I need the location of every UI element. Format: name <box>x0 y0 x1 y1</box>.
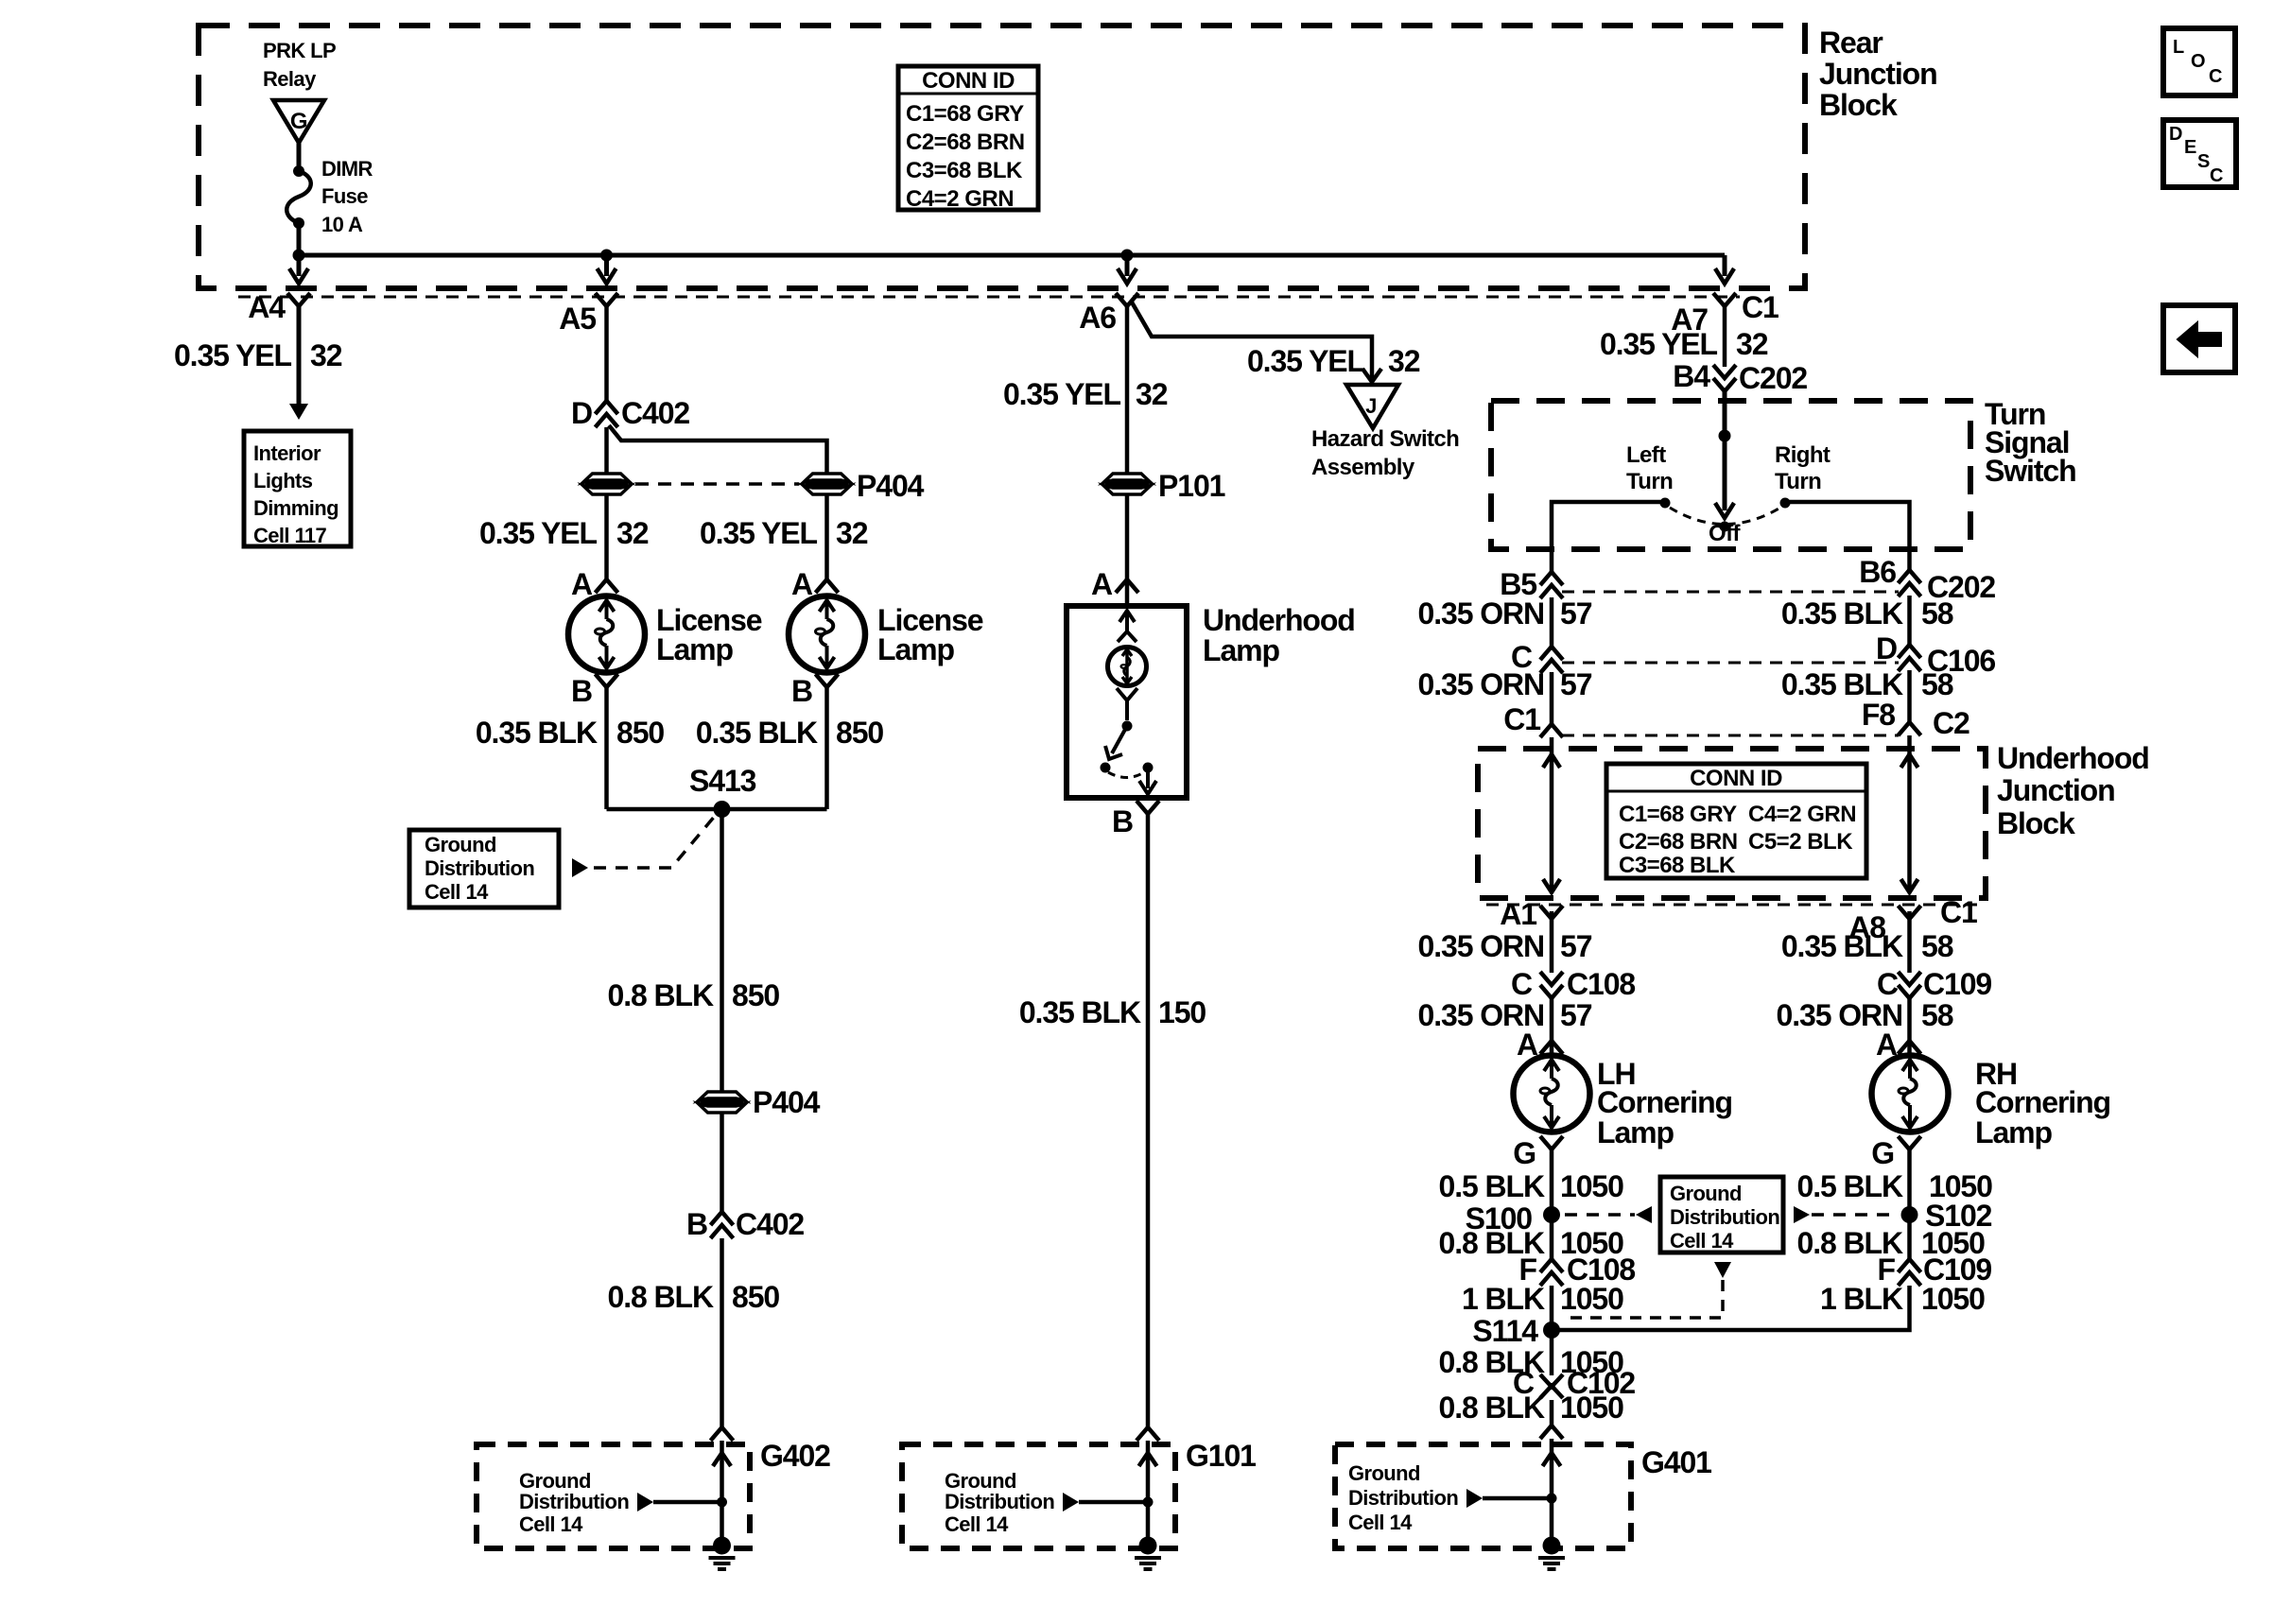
svg-text:E: E <box>2184 137 2196 158</box>
pin A chevron (right license) <box>816 579 839 593</box>
dashed tie between P404 grommets <box>635 482 799 486</box>
label 0.35 BLK 150 <box>1019 995 1206 1029</box>
pin G fork (LH cornering) <box>1540 1136 1563 1149</box>
svg-text:Lamp: Lamp <box>1597 1115 1674 1149</box>
Left Turn contact dot <box>1660 498 1671 509</box>
Turn Signal Switch label <box>1985 397 2076 488</box>
underhood output arrow to box edge <box>1139 768 1156 794</box>
svg-text:C202: C202 <box>1739 361 1807 395</box>
label 1 BLK 1050 (left) <box>1462 1282 1623 1316</box>
underhood switch pivot dot <box>1122 721 1133 732</box>
svg-text:C3=68 BLK: C3=68 BLK <box>1619 853 1736 878</box>
G402 junction dot <box>717 1497 727 1508</box>
wire into G401 with up arrow <box>1543 1439 1561 1546</box>
wire F C109 down and across to S114 <box>1552 1286 1910 1330</box>
svg-text:PRK LP: PRK LP <box>263 39 336 62</box>
svg-text:B: B <box>791 674 812 708</box>
svg-text:850: 850 <box>732 978 779 1012</box>
label 0.35 YEL 32 (left license) <box>479 516 649 550</box>
svg-text:B: B <box>1112 804 1133 838</box>
svg-text:1050: 1050 <box>1560 1169 1623 1203</box>
svg-text:58: 58 <box>1921 929 1953 963</box>
pin A chevron (LH cornering) <box>1540 1041 1563 1054</box>
connector C1 chevron <box>1540 724 1563 737</box>
wire A7 down to C202 <box>1723 303 1727 367</box>
connector D/C402 double chevron <box>596 401 618 427</box>
wire A4 down to interior lights box <box>297 303 302 406</box>
svg-text:G: G <box>1871 1136 1894 1170</box>
svg-text:1 BLK: 1 BLK <box>1820 1282 1903 1316</box>
svg-text:Lamp: Lamp <box>1975 1115 2052 1149</box>
arrowhead into hazard J <box>1362 369 1381 382</box>
arrowhead into interior lights box <box>289 404 308 420</box>
svg-text:0.35 BLK: 0.35 BLK <box>696 716 818 750</box>
Rear Junction Block dashed box <box>199 26 1805 288</box>
Underhood Lamp label <box>1203 603 1355 667</box>
wire A5 down to C402 connector <box>604 303 609 401</box>
svg-text:0.35 BLK: 0.35 BLK <box>1781 929 1903 963</box>
label Right Turn <box>1775 442 1831 494</box>
wire B5 to C <box>1550 597 1554 648</box>
svg-text:C4=2 GRN: C4=2 GRN <box>1748 802 1856 827</box>
svg-text:S114: S114 <box>1472 1314 1538 1348</box>
wire F C108 to S114 <box>1550 1286 1554 1330</box>
right License Lamp <box>789 596 865 673</box>
wire A6 down to P101 <box>1125 303 1130 474</box>
svg-text:Block: Block <box>1997 806 2075 840</box>
wire C102 to G401 <box>1550 1400 1554 1425</box>
connector B5 double chevron <box>1540 572 1563 598</box>
underhood switch arm <box>1105 726 1127 759</box>
CONN ID table (rear junction block) <box>898 66 1038 212</box>
svg-text:Lamp: Lamp <box>877 632 954 666</box>
svg-text:C3=68 BLK: C3=68 BLK <box>906 158 1023 183</box>
grommet P404 (left license) <box>583 474 631 494</box>
svg-text:A1: A1 <box>1500 897 1536 931</box>
Off contact dot <box>1720 522 1730 532</box>
wire S413 down to P404 <box>720 809 724 1092</box>
label 0.35 ORN 57 (row1) <box>1418 596 1592 631</box>
relay output triangle G <box>273 100 324 143</box>
pin B fork (left license) <box>596 674 618 687</box>
svg-text:C402: C402 <box>736 1207 804 1241</box>
svg-text:C1=68 GRY: C1=68 GRY <box>1619 802 1737 827</box>
splice S100 <box>1543 1206 1560 1223</box>
label 0.5 BLK 1050 (RH) <box>1797 1169 1993 1203</box>
svg-text:Cell 14: Cell 14 <box>1348 1511 1413 1534</box>
svg-text:32: 32 <box>1388 344 1420 378</box>
Turn Signal Switch dashed box <box>1491 401 1970 549</box>
pin A chevron (left license) <box>596 579 618 593</box>
drop wire to A7 with arrow <box>1715 255 1734 284</box>
label 0.8 BLK 1050 (below S100) <box>1439 1226 1624 1260</box>
label 0.8 BLK 850 (lower) <box>608 1280 780 1314</box>
svg-text:150: 150 <box>1158 995 1206 1029</box>
svg-text:Cell 14: Cell 14 <box>945 1512 1009 1536</box>
callout arrow (S413) <box>572 858 588 877</box>
svg-text:0.8 BLK: 0.8 BLK <box>1439 1391 1545 1425</box>
svg-text:Cell 14: Cell 14 <box>425 880 489 904</box>
connector fork A7/C1 <box>1713 293 1736 306</box>
connector fork A5 <box>596 293 618 306</box>
wire underhood B down to G101 <box>1146 814 1151 1427</box>
label 0.35 BLK 58 (row2) <box>1781 667 1953 701</box>
svg-text:B: B <box>686 1207 707 1241</box>
G402 internal tie wire <box>653 1500 722 1505</box>
PRK LP Relay label <box>263 39 336 91</box>
label 0.35 BLK 850 (left license) <box>476 716 665 750</box>
svg-text:C1: C1 <box>1742 290 1778 324</box>
right turn output wire <box>1785 502 1910 572</box>
svg-text:G: G <box>290 109 307 134</box>
svg-text:1 BLK: 1 BLK <box>1462 1282 1545 1316</box>
G402 ground distribution dashed box <box>477 1444 750 1548</box>
connector B/C402 double chevron (lower) <box>711 1212 734 1238</box>
svg-text:Turn: Turn <box>1626 469 1673 494</box>
label 0.8 BLK 850 (upper) <box>608 978 780 1012</box>
underhood bulb <box>1108 648 1147 686</box>
underhood internal feed arrow <box>1118 611 1136 642</box>
connector C/C109 double chevron down <box>1899 972 1921 998</box>
dashed throw arc (turn switch) <box>1670 508 1780 525</box>
svg-text:1050: 1050 <box>1921 1282 1985 1316</box>
svg-text:O: O <box>2191 51 2206 72</box>
svg-text:C4=2 GRN: C4=2 GRN <box>906 186 1014 212</box>
svg-text:B4: B4 <box>1673 359 1710 393</box>
svg-text:Ground: Ground <box>425 833 496 856</box>
svg-text:C1=68 GRY: C1=68 GRY <box>906 101 1024 127</box>
svg-text:C109: C109 <box>1923 967 1991 1001</box>
svg-text:32: 32 <box>1736 327 1768 361</box>
wire RH G to S102 <box>1907 1149 1912 1259</box>
svg-text:Cell 14: Cell 14 <box>1670 1229 1734 1253</box>
svg-text:0.35 ORN: 0.35 ORN <box>1418 596 1544 631</box>
svg-text:C: C <box>2210 165 2223 186</box>
wire C108 to lamp A <box>1550 998 1554 1056</box>
svg-text:C5=2 BLK: C5=2 BLK <box>1748 829 1853 855</box>
drop wire to A6 with arrow <box>1118 255 1136 284</box>
pin A chevron (underhood) <box>1116 579 1138 593</box>
svg-text:57: 57 <box>1560 929 1592 963</box>
svg-text:S413: S413 <box>689 764 756 798</box>
pin A chevron (RH cornering) <box>1899 1041 1921 1054</box>
svg-text:Cell 117: Cell 117 <box>253 524 327 547</box>
turn switch pivot dot <box>1719 430 1731 442</box>
branch wire A6 to hazard switch <box>1131 301 1372 378</box>
connector F/C109 double chevron <box>1899 1259 1921 1286</box>
svg-text:Ground: Ground <box>1670 1182 1742 1205</box>
thin dashed interface line (C2) <box>1562 734 1899 737</box>
svg-text:0.8 BLK: 0.8 BLK <box>608 1280 714 1314</box>
label 0.35 ORN 57 (A1) <box>1418 929 1592 963</box>
svg-text:Left: Left <box>1626 442 1666 468</box>
label 0.35 BLK 850 (right license) <box>696 716 884 750</box>
svg-text:G101: G101 <box>1186 1439 1256 1473</box>
DIMR fuse 10A <box>286 157 373 236</box>
wire relay to fuse <box>297 143 302 171</box>
underhood switch left contact <box>1101 763 1111 773</box>
svg-text:Distribution: Distribution <box>519 1490 629 1513</box>
hazard J triangle <box>1346 385 1398 428</box>
svg-text:DIMR: DIMR <box>321 157 373 181</box>
left License Lamp label <box>656 603 762 666</box>
wire B6 to D <box>1907 596 1912 647</box>
label 0.35 BLK 58 (A8) <box>1781 929 1953 963</box>
grommet P404 (right license) <box>804 474 851 494</box>
svg-text:Dimming: Dimming <box>253 496 338 520</box>
svg-text:32: 32 <box>1136 377 1168 411</box>
wire C402 down to G402 <box>720 1238 724 1427</box>
bus junction dot A4 <box>293 250 305 262</box>
svg-text:CONN ID: CONN ID <box>922 68 1015 94</box>
svg-text:Distribution: Distribution <box>1348 1486 1458 1510</box>
G401 internal tie wire <box>1483 1496 1552 1501</box>
junction block pass-through wire (left) <box>1543 737 1560 892</box>
svg-text:1050: 1050 <box>1560 1391 1623 1425</box>
connector interface thin dashed line below junction block <box>238 296 1740 299</box>
svg-text:Junction: Junction <box>1819 57 1937 91</box>
svg-text:850: 850 <box>732 1280 779 1314</box>
svg-text:Cell 14: Cell 14 <box>519 1512 583 1536</box>
underhood bulb-to-switch fork <box>1117 688 1137 720</box>
svg-text:32: 32 <box>616 516 649 550</box>
wire P404 to lamp A (right) <box>824 494 829 580</box>
svg-text:0.35 ORN: 0.35 ORN <box>1418 929 1544 963</box>
drop wire to A5 with arrow <box>598 255 616 284</box>
dashed leader with arrow (S102) <box>1794 1206 1897 1223</box>
wire D to F8 <box>1907 670 1912 722</box>
junction block pass-through wire (right) <box>1901 735 1918 892</box>
svg-text:P404: P404 <box>753 1085 821 1119</box>
turn switch wiper arrow <box>1715 503 1734 518</box>
splice S102 <box>1901 1206 1918 1223</box>
dashed leader with arrow (S100) <box>1565 1206 1652 1223</box>
callout arrow down to S114 <box>1567 1262 1731 1318</box>
pin B fork (underhood) <box>1136 801 1159 814</box>
svg-text:32: 32 <box>310 338 342 372</box>
G401 ground distribution dashed box <box>1335 1444 1631 1548</box>
wire C109 to lamp A <box>1907 998 1912 1056</box>
wire P404 to C402 B <box>720 1113 724 1212</box>
svg-text:32: 32 <box>836 516 868 550</box>
svg-text:Distribution: Distribution <box>1670 1205 1779 1229</box>
svg-text:Lamp: Lamp <box>1203 633 1279 667</box>
G401 junction dot <box>1547 1494 1557 1504</box>
LH Cornering Lamp <box>1514 1056 1590 1132</box>
svg-text:0.35 BLK: 0.35 BLK <box>1781 667 1903 701</box>
CONN ID table (underhood junction block) <box>1606 764 1866 878</box>
ground symbol G101 <box>1135 1537 1161 1570</box>
svg-text:L: L <box>2173 37 2184 58</box>
connector fork A8/C1 <box>1899 906 1921 919</box>
chevron above G402 <box>711 1427 734 1441</box>
Underhood Junction Block dashed box <box>1478 749 1986 898</box>
G401 internal arrow <box>1466 1489 1483 1508</box>
splice S413 <box>714 801 731 818</box>
svg-text:G: G <box>1513 1136 1536 1170</box>
svg-text:C1: C1 <box>1940 895 1977 929</box>
drop wire to A4 with arrow <box>289 255 308 284</box>
LOC box <box>2163 28 2235 95</box>
chevron above G101 <box>1136 1427 1159 1441</box>
label 0.35 ORN 57 (lamp feed left) <box>1418 998 1592 1032</box>
Interior Lights Dimming Cell 117 box <box>244 431 351 547</box>
svg-text:0.35 YEL: 0.35 YEL <box>1003 377 1121 411</box>
pin G fork (RH cornering) <box>1899 1136 1921 1149</box>
svg-text:C108: C108 <box>1567 967 1635 1001</box>
svg-text:850: 850 <box>836 716 883 750</box>
svg-text:Block: Block <box>1819 88 1898 122</box>
label 0.35 YEL 32 (A4 wire) <box>174 338 342 372</box>
svg-text:D: D <box>2169 124 2182 145</box>
RH Cornering Lamp label <box>1975 1057 2110 1149</box>
svg-text:A4: A4 <box>248 290 286 324</box>
G402 internal arrow <box>637 1493 653 1512</box>
wire LH G to S100 <box>1550 1149 1554 1259</box>
svg-text:D: D <box>1876 631 1897 665</box>
splice S114 <box>1543 1322 1560 1339</box>
grommet P404 (lower) <box>699 1092 746 1113</box>
svg-text:G401: G401 <box>1641 1445 1711 1479</box>
svg-text:C2=68 BRN: C2=68 BRN <box>906 130 1025 155</box>
svg-text:A: A <box>571 567 593 601</box>
label 0.35 ORN 57 (row2) <box>1418 667 1592 701</box>
svg-text:B: B <box>571 674 592 708</box>
svg-text:0.5 BLK: 0.5 BLK <box>1439 1169 1545 1203</box>
svg-text:A: A <box>1091 567 1113 601</box>
wire C402 to P404 grommet (left) <box>604 427 609 474</box>
svg-text:C1: C1 <box>1503 702 1540 736</box>
label 0.35 YEL 32 (right license) <box>700 516 868 550</box>
G101 internal arrow <box>1063 1493 1079 1512</box>
wire left license B down to S413 <box>604 687 609 809</box>
svg-text:Distribution: Distribution <box>425 856 534 880</box>
ground distribution callout box (cornering) <box>1660 1177 1783 1253</box>
svg-text:0.8 BLK: 0.8 BLK <box>608 978 714 1012</box>
svg-text:Hazard Switch: Hazard Switch <box>1311 426 1459 452</box>
svg-text:J: J <box>1365 394 1377 418</box>
left turn output wire <box>1552 502 1665 574</box>
LH Cornering Lamp label <box>1597 1057 1732 1149</box>
svg-text:A5: A5 <box>559 302 596 336</box>
svg-text:57: 57 <box>1560 998 1592 1032</box>
svg-text:Relay: Relay <box>263 67 317 91</box>
label 0.8 BLK 1050 (below S114) <box>1439 1345 1624 1379</box>
svg-text:Assembly: Assembly <box>1311 455 1415 480</box>
svg-text:0.5 BLK: 0.5 BLK <box>1797 1169 1903 1203</box>
S413 tie wire <box>607 807 827 812</box>
svg-text:1050: 1050 <box>1560 1282 1623 1316</box>
svg-text:0.35 ORN: 0.35 ORN <box>1418 667 1544 701</box>
svg-text:S: S <box>2197 151 2210 172</box>
thin dashed interface line (C202) <box>1562 591 1899 594</box>
label 0.35 YEL 32 (A7 wire) <box>1600 327 1768 361</box>
svg-text:C402: C402 <box>621 396 689 430</box>
label 0.8 BLK 1050 (above G401) <box>1439 1391 1624 1425</box>
connector F/C108 double chevron <box>1540 1259 1563 1286</box>
ground distribution callout box (S413) <box>409 830 559 907</box>
branch wire from C402 to right license lamp drop <box>609 425 827 474</box>
Underhood Lamp box <box>1067 606 1187 798</box>
svg-text:C: C <box>1511 967 1533 1001</box>
label 0.35 ORN 58 (lamp feed right) <box>1777 998 1953 1032</box>
svg-text:Underhood: Underhood <box>1997 741 2149 775</box>
svg-text:Rear: Rear <box>1819 26 1883 60</box>
svg-text:Switch: Switch <box>1985 454 2076 488</box>
svg-text:Right: Right <box>1775 442 1831 468</box>
svg-text:58: 58 <box>1921 596 1953 631</box>
connector C double chevron (C106 left) <box>1540 647 1563 673</box>
label 0.35 YEL 32 (hazard branch) <box>1247 344 1420 378</box>
svg-text:D: D <box>571 396 592 430</box>
ground symbol G401 <box>1538 1537 1565 1570</box>
svg-text:A6: A6 <box>1079 301 1116 335</box>
bus junction dot A5 <box>600 250 613 262</box>
svg-text:0.35 YEL: 0.35 YEL <box>1247 344 1365 378</box>
wire C to C1 <box>1550 672 1554 724</box>
turn switch feed wire <box>1723 391 1727 510</box>
label 0.5 BLK 1050 (LH) <box>1439 1169 1624 1203</box>
svg-text:Cornering: Cornering <box>1975 1085 2110 1119</box>
G101 junction dot <box>1143 1497 1154 1508</box>
wire into G101 with up arrow <box>1139 1441 1157 1546</box>
svg-text:0.35 BLK: 0.35 BLK <box>1781 596 1903 631</box>
connector D double chevron (C106 right) <box>1899 645 1921 671</box>
svg-text:C: C <box>2209 66 2222 87</box>
Hazard Switch Assembly label <box>1311 426 1459 480</box>
svg-text:Cornering: Cornering <box>1597 1085 1732 1119</box>
left License Lamp <box>568 596 645 673</box>
svg-text:F8: F8 <box>1862 698 1895 732</box>
label 0.35 BLK 58 (row1) <box>1781 596 1953 631</box>
svg-text:P404: P404 <box>857 469 925 503</box>
wire fuse to bus <box>297 223 302 255</box>
underhood switch right contact <box>1143 763 1154 773</box>
bus junction dot A6 <box>1121 250 1134 262</box>
wire A8 to C109 <box>1907 911 1912 973</box>
label 1 BLK 1050 (right) <box>1820 1282 1985 1316</box>
connector C/C102 mating pair <box>1540 1374 1563 1398</box>
svg-text:0.35 BLK: 0.35 BLK <box>476 716 598 750</box>
svg-text:C2: C2 <box>1933 706 1969 740</box>
underhood switch dashed throw arc <box>1108 772 1144 778</box>
G101 internal tie wire <box>1079 1500 1148 1505</box>
svg-text:A: A <box>791 567 813 601</box>
Right Turn contact dot <box>1780 498 1791 509</box>
svg-text:0.35 YEL: 0.35 YEL <box>1600 327 1718 361</box>
svg-text:Distribution: Distribution <box>945 1490 1054 1513</box>
grommet P101 <box>1103 474 1151 494</box>
svg-text:0.35 BLK: 0.35 BLK <box>1019 995 1141 1029</box>
dashed leader to S413 <box>594 815 716 868</box>
connector fork A6 <box>1116 293 1138 306</box>
ground symbol G402 <box>709 1537 736 1570</box>
svg-text:0.35 YEL: 0.35 YEL <box>479 516 598 550</box>
RH Cornering Lamp <box>1872 1056 1949 1132</box>
svg-text:Lamp: Lamp <box>656 632 733 666</box>
connector fork A1 <box>1540 906 1563 919</box>
wire P101 to underhood lamp A <box>1125 494 1130 606</box>
svg-text:0.35 YEL: 0.35 YEL <box>174 338 292 372</box>
wire A1 to C108 <box>1550 911 1554 973</box>
svg-text:CONN ID: CONN ID <box>1690 766 1782 791</box>
wire into G402 with up arrow <box>713 1441 731 1546</box>
back-arrow box <box>2163 305 2235 372</box>
wire right license B down to S413 <box>824 687 829 809</box>
svg-text:Turn: Turn <box>1775 469 1821 494</box>
connector B4/C202 double chevron down <box>1713 365 1736 391</box>
svg-text:58: 58 <box>1921 667 1953 701</box>
